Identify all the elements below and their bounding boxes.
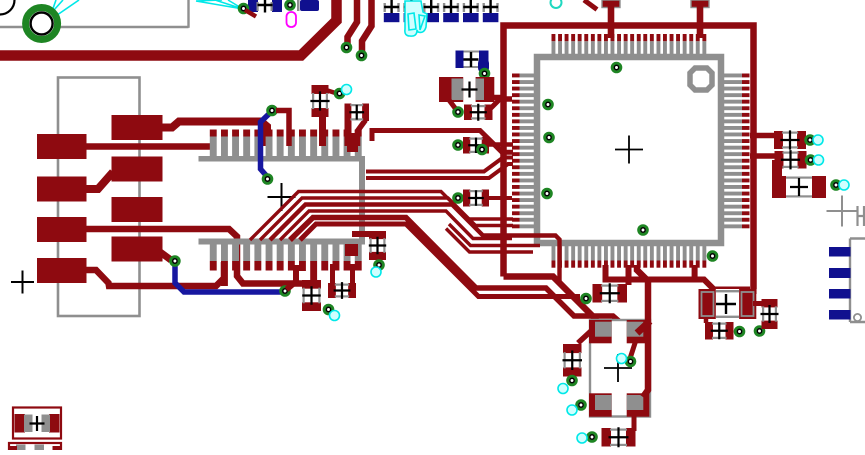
via V3	[342, 43, 351, 52]
wire vertical from pad P1	[608, 4, 615, 38]
wire fan trace m6	[300, 224, 580, 297]
resistor R16 boxed partial	[9, 443, 61, 455]
wire vertical from pad P2	[697, 4, 704, 38]
wire red via V15 to pin	[287, 265, 297, 290]
ratsnest lines at mounting ring	[45, 0, 79, 22]
via V12	[268, 106, 277, 115]
wire QFP pin long vertical	[637, 265, 648, 397]
wire QFP pin to R13	[750, 133, 780, 139]
via V25	[626, 357, 635, 366]
wire C10 to ring	[494, 95, 506, 101]
via V2	[286, 1, 295, 10]
wire after-descent trace x2	[446, 229, 533, 253]
connector J3 pads	[829, 247, 851, 320]
wire QFP power ring	[504, 26, 754, 295]
via V23	[454, 108, 463, 117]
connector J1 pads inner column	[112, 115, 163, 262]
wire QFP pin vertical b	[692, 265, 698, 281]
resistor R4	[463, 190, 489, 207]
wire resistor R2 right leg	[358, 120, 366, 146]
QFP U1 center cross	[615, 136, 643, 164]
wire R3 right to pin	[489, 142, 513, 147]
trace stub from via V1	[245, 10, 256, 17]
trace blob header right	[347, 133, 358, 152]
wire X1 to R10	[632, 415, 637, 431]
connector J1 pads left column	[37, 134, 87, 283]
via V29	[735, 327, 744, 336]
wire C12 to R11	[704, 317, 709, 323]
wire bottom jog trace	[603, 280, 751, 290]
via V16	[335, 89, 344, 98]
wire thick power trace	[0, 0, 337, 56]
wire fan trace m4	[280, 211, 512, 240]
mounting ring	[26, 8, 58, 40]
QFP U1 body	[537, 57, 721, 243]
wire trace h2	[366, 164, 513, 178]
capacitor C11	[464, 104, 493, 121]
QFP U1 pin1 marker	[690, 68, 712, 90]
resistor R7	[328, 282, 356, 299]
via V13	[263, 175, 272, 184]
resistor R6	[302, 280, 321, 311]
pad P1 top	[602, 0, 620, 8]
resistor R3	[463, 137, 489, 154]
wire ring to QFP pin y99	[500, 96, 512, 102]
via V32	[806, 156, 815, 165]
wire pad1 to header	[86, 143, 214, 150]
via V19	[454, 194, 463, 203]
via V21	[324, 305, 333, 314]
wire pad2 to padB	[86, 172, 113, 189]
QFP U1 pins	[512, 34, 750, 268]
via V7	[544, 100, 553, 109]
header J2 origin cross	[268, 183, 296, 211]
wire fan trace m5 long diagonal	[290, 218, 621, 324]
wire from right entering header	[372, 131, 513, 153]
wire resistor R1 bottom	[319, 115, 326, 146]
mounting hole arc top-left	[0, 0, 15, 15]
trace diagonal stub top	[584, 0, 597, 10]
wire C11 diag	[489, 99, 500, 110]
via V1	[239, 4, 248, 13]
wire crystal TR diag	[637, 321, 650, 333]
wire pad3 to resistor	[86, 229, 303, 284]
resistor R2	[345, 104, 370, 122]
via V31	[806, 136, 815, 145]
wire trace h1	[366, 158, 513, 172]
wire R4 to pin	[489, 196, 512, 200]
wire pin to R7 left	[330, 264, 335, 284]
via V9	[543, 189, 552, 198]
cyan ring highlight	[551, 0, 562, 8]
capacitor C7	[462, 0, 479, 22]
wire R14 to C13 vertical	[772, 160, 782, 182]
crystal X1 cross	[604, 354, 632, 382]
via V5	[480, 69, 489, 78]
via V33	[832, 181, 841, 190]
via V8	[545, 133, 554, 142]
via V24	[582, 294, 591, 303]
via V14	[171, 257, 180, 266]
connector J1 outline	[58, 78, 140, 317]
wire C10 to via V23 arc	[449, 100, 455, 108]
wire blue bottom long	[175, 263, 284, 292]
via V6	[612, 63, 621, 72]
board outline gray line	[0, 26, 189, 28]
via V4	[357, 51, 366, 60]
capacitor C1 top-left	[248, 0, 282, 13]
resistor R13	[774, 130, 806, 149]
via V26	[568, 376, 577, 385]
wire C12 to R12	[753, 301, 763, 306]
capacitor C12 large	[699, 289, 757, 319]
resistor R9	[563, 344, 583, 377]
wire resistor R1 top	[326, 90, 337, 94]
text H label	[858, 206, 865, 226]
capacitor C4	[403, 0, 420, 22]
via V28	[588, 433, 597, 442]
trace blob header right corner	[345, 244, 358, 256]
origin cross bottom-left	[11, 271, 34, 294]
resistor R15 boxed	[13, 408, 61, 439]
capacitor C2 fragment	[297, 0, 319, 11]
resistor R14	[775, 150, 807, 169]
connector J3 pin1 circle	[854, 314, 861, 321]
wire padA to header pin	[160, 122, 267, 147]
via V10	[639, 226, 648, 235]
wire header to R5	[352, 231, 370, 237]
via V17	[454, 141, 463, 150]
via V11	[708, 252, 717, 261]
wire pin to R7 right	[350, 264, 355, 284]
origin cross right	[827, 196, 858, 227]
wire trace to via V4	[362, 0, 372, 54]
wire QFP pin to R8	[626, 265, 632, 285]
via V30	[755, 327, 764, 336]
capacitor C10 large	[439, 77, 494, 102]
silk outline magenta	[287, 12, 297, 27]
pad P2 top	[691, 0, 709, 8]
header J2 bottom pins	[210, 245, 362, 287]
resistor R10	[602, 427, 636, 447]
wire QFP pin to R14	[750, 153, 780, 159]
wire blue via V12 to via V13	[261, 112, 272, 177]
wire QFP pin vertical a	[603, 265, 609, 281]
wire pad4 to header pin	[86, 262, 224, 286]
resistor R8	[593, 283, 628, 303]
crystal X1	[589, 320, 650, 417]
resistor R11	[705, 322, 734, 340]
via V18	[478, 145, 487, 154]
wire fan trace m1	[250, 192, 513, 241]
header J2 body	[199, 156, 366, 245]
via V15	[281, 287, 290, 296]
resistor R1	[310, 85, 329, 117]
wire TR pad to via V25	[631, 340, 637, 357]
wire padD to via	[156, 249, 171, 260]
capacitor C13 large	[772, 176, 826, 198]
via V27	[577, 401, 586, 410]
resistor R12	[761, 299, 779, 329]
connector J3 outline	[850, 239, 865, 323]
capacitor C9 horizontal	[456, 51, 490, 74]
capacitor C8	[482, 0, 499, 22]
header J2 top pins	[210, 130, 362, 157]
wire resistor R2 left leg	[345, 119, 352, 146]
wire R9 to TL pad diag	[578, 331, 591, 343]
capacitor C3	[383, 0, 400, 22]
wire trace to via V3	[348, 0, 358, 46]
wire fan trace m2	[260, 198, 513, 240]
board outline gray corner	[187, 0, 189, 28]
via V20	[375, 261, 384, 270]
wire after-descent trace x1	[449, 224, 540, 246]
ratsnest lines near via V1	[196, 0, 243, 9]
highlight polygons	[405, 1, 427, 36]
wire red from via V12 to pin	[276, 111, 289, 147]
wire ring to crystal diagonal	[504, 277, 598, 321]
resistor R5	[369, 231, 386, 260]
capacitor C5	[423, 0, 440, 22]
capacitor C6	[442, 0, 459, 22]
wire fan trace m3	[270, 205, 596, 321]
